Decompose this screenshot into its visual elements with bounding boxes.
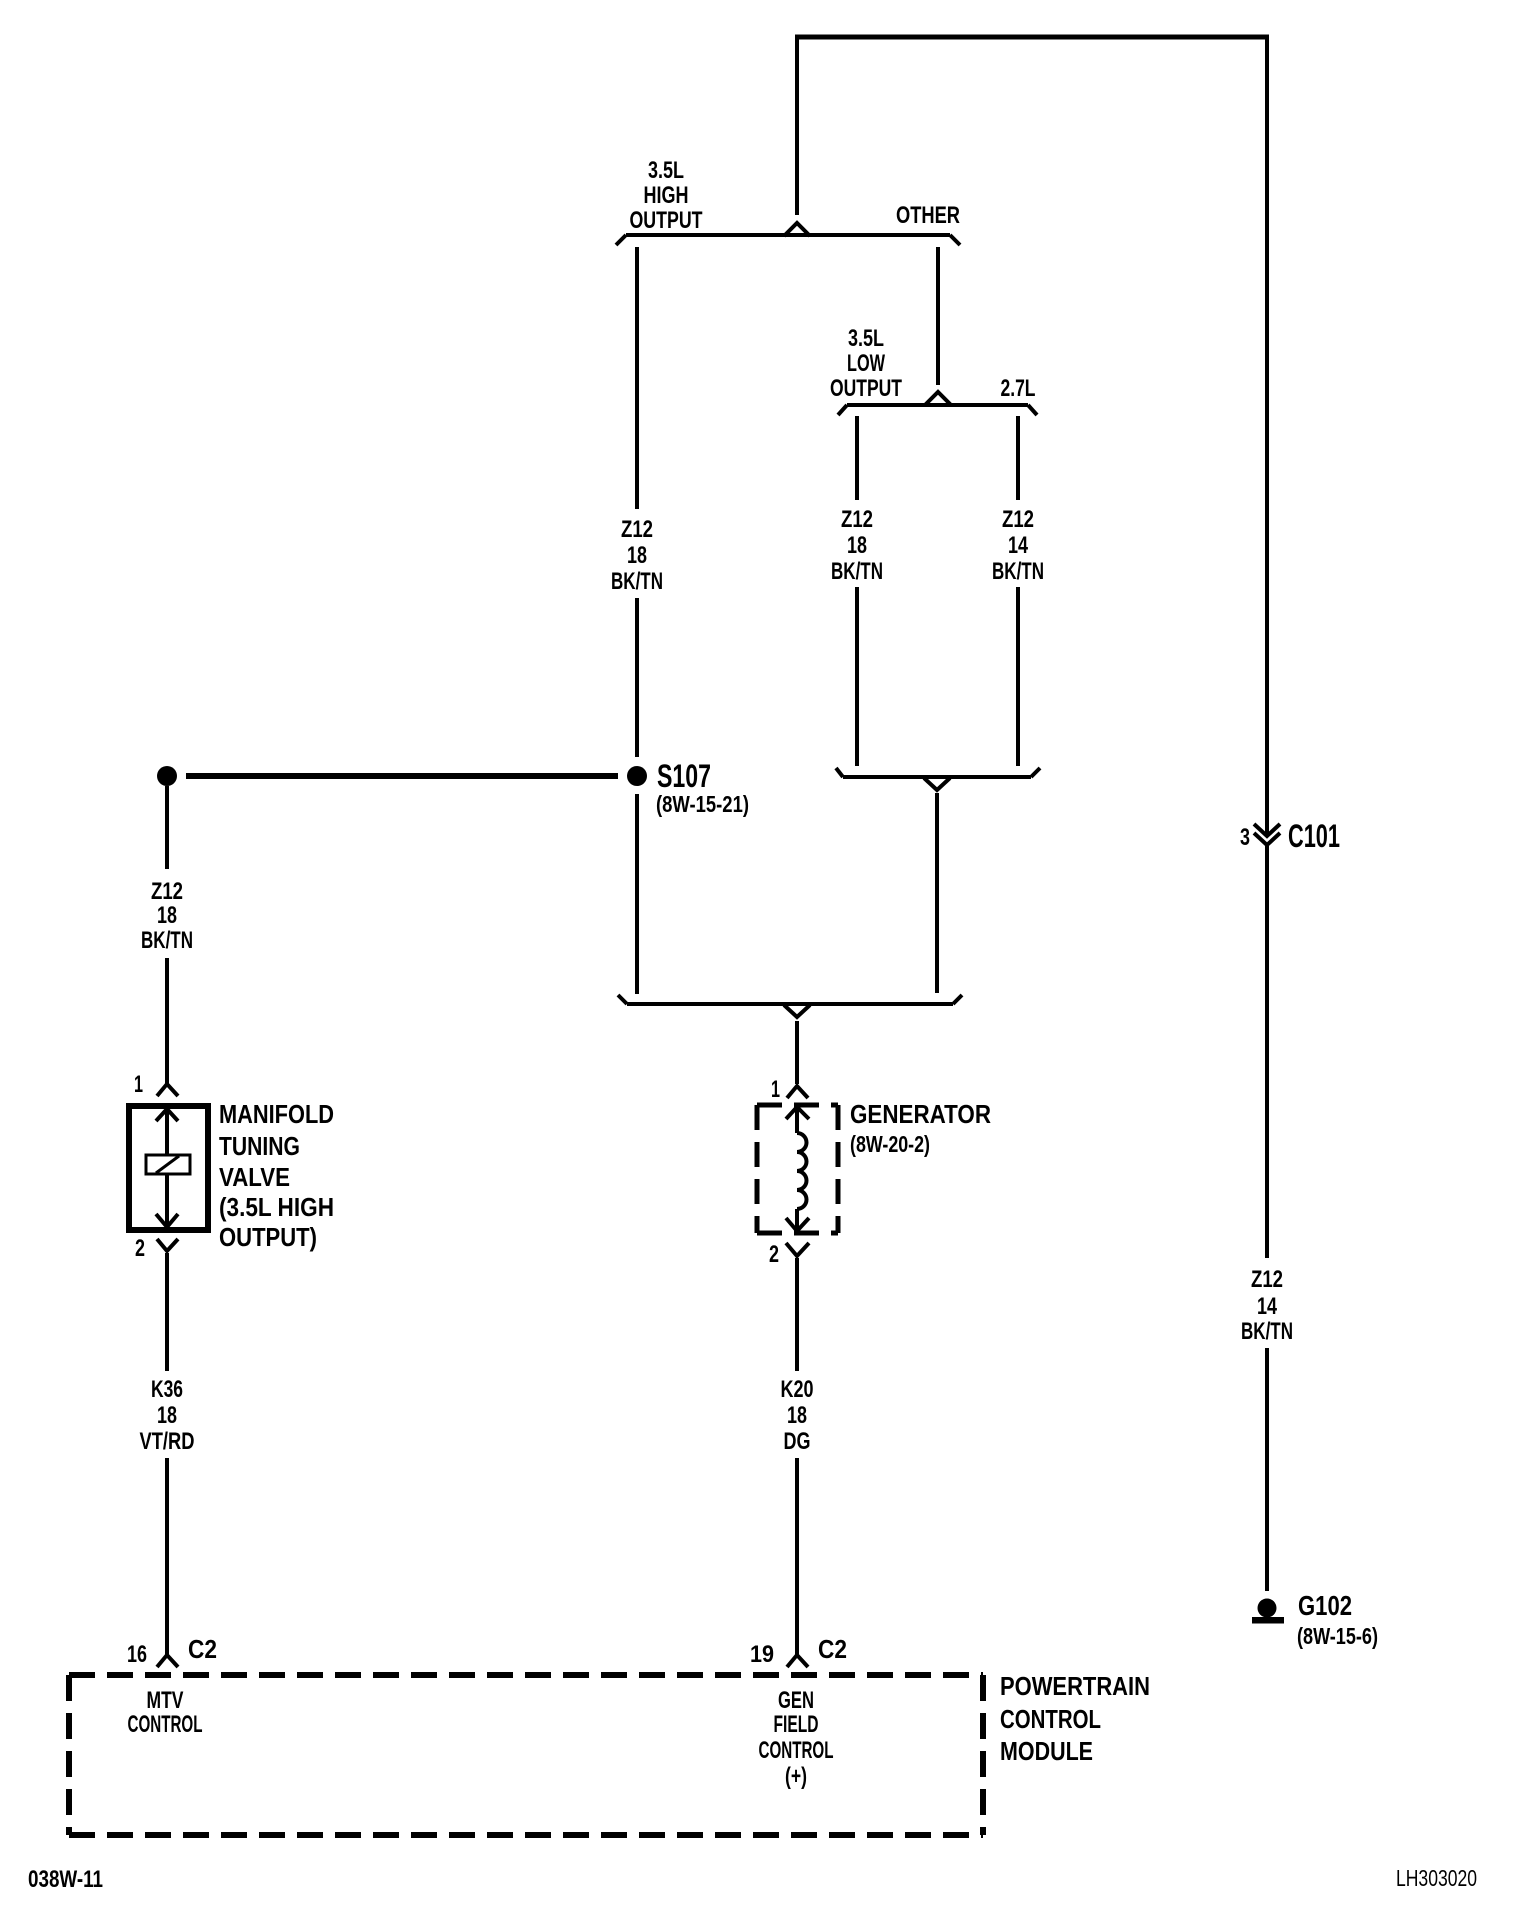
svg-text:GENERATOR: GENERATOR: [850, 1099, 991, 1129]
generator inner bottom arrow: [786, 1218, 809, 1231]
label wire Z12 14 BK/TN (2.7L branch): [992, 506, 1044, 585]
svg-text:14: 14: [1257, 1293, 1277, 1320]
pin 2 MTV connector chevron: [157, 1239, 178, 1251]
wire OTHER branch upper: [936, 247, 940, 385]
label wire Z12 18 BK/TN (MTV branch): [141, 878, 193, 954]
svg-text:16: 16: [127, 1641, 147, 1668]
MTV inner wire bottom: [165, 1174, 169, 1227]
wire MTV branch upper: [165, 786, 169, 869]
svg-text:2: 2: [769, 1241, 779, 1268]
svg-text:K20: K20: [781, 1376, 814, 1403]
svg-text:14: 14: [1008, 532, 1028, 559]
generator inner wire bottom: [795, 1209, 799, 1230]
svg-text:Z12: Z12: [1251, 1266, 1283, 1293]
svg-text:3.5L: 3.5L: [848, 325, 884, 352]
node merge low-output/2.7L branches: [836, 768, 1040, 790]
wire merged OTHER branch down: [935, 793, 939, 993]
svg-text:(8W-15-21): (8W-15-21): [656, 791, 749, 817]
wire generator to PCM lower: [795, 1458, 799, 1655]
label wire Z12 18 BK/TN (low output branch): [831, 506, 883, 585]
wire 2.7L branch lower: [1016, 587, 1020, 766]
svg-text:LOW: LOW: [847, 350, 885, 377]
MTV solenoid diagonal: [156, 1156, 179, 1173]
svg-text:CONTROL: CONTROL: [1000, 1704, 1101, 1734]
pin 2 generator connector chevron: [786, 1243, 809, 1256]
svg-text:G102: G102: [1298, 1590, 1352, 1621]
node C101 connector double chevron: [1254, 824, 1280, 845]
wire right Z12 upper: [1265, 35, 1269, 834]
svg-text:BK/TN: BK/TN: [611, 568, 663, 595]
svg-text:Z12: Z12: [621, 516, 653, 543]
label 3.5L LOW OUTPUT: [830, 325, 902, 402]
wire right Z12 lower: [1265, 1348, 1269, 1591]
label wire Z12 14 BK/TN (right): [1241, 1266, 1293, 1345]
MTV inner top arrow: [156, 1109, 178, 1121]
pin 1 generator connector chevron: [787, 1086, 808, 1098]
svg-text:1: 1: [771, 1076, 780, 1103]
svg-text:OUTPUT): OUTPUT): [219, 1222, 317, 1252]
wire S107 horizontal: [186, 773, 618, 779]
svg-text:18: 18: [157, 902, 177, 929]
svg-text:Z12: Z12: [1002, 506, 1034, 533]
label wire Z12 18 BK/TN (high output branch): [611, 516, 663, 595]
node S107 splice dot: [627, 766, 647, 786]
wire high output branch to splice: [635, 598, 639, 757]
wire MTV to PCM upper: [165, 1253, 169, 1371]
svg-text:(+): (+): [785, 1763, 807, 1790]
svg-text:MANIFOLD: MANIFOLD: [219, 1099, 334, 1129]
svg-text:GEN: GEN: [778, 1687, 814, 1714]
component MANIFOLD TUNING VALVE box: [129, 1106, 208, 1230]
generator inner top arrow: [786, 1107, 809, 1119]
ground G102 symbol: [1258, 1599, 1277, 1618]
svg-text:1: 1: [134, 1071, 143, 1098]
svg-text:DG: DG: [784, 1428, 811, 1455]
wire merged to generator pin1: [795, 1021, 799, 1084]
svg-text:Z12: Z12: [841, 506, 873, 533]
svg-text:CONTROL: CONTROL: [759, 1737, 834, 1764]
svg-text:MTV: MTV: [147, 1687, 184, 1714]
svg-text:VALVE: VALVE: [219, 1162, 290, 1192]
wire 2.7L branch upper: [1016, 416, 1020, 500]
pin 1 MTV connector chevron: [157, 1084, 178, 1096]
label wire K36 18 VT/RD: [140, 1376, 195, 1455]
svg-text:MODULE: MODULE: [1000, 1736, 1093, 1766]
svg-text:C2: C2: [188, 1634, 217, 1664]
generator field coil: [797, 1133, 807, 1209]
wire generator to PCM upper: [795, 1258, 799, 1371]
component GENERATOR dashed box: [757, 1105, 838, 1233]
wire MTV to PCM lower: [165, 1458, 169, 1655]
MTV inner wire top: [165, 1109, 169, 1155]
label 3.5L HIGH OUTPUT: [630, 157, 703, 234]
svg-text:(3.5L HIGH: (3.5L HIGH: [219, 1192, 334, 1222]
node split 3.5L-HIGH-OUTPUT/OTHER: [616, 223, 960, 245]
svg-text:K36: K36: [151, 1376, 183, 1403]
svg-text:19: 19: [750, 1641, 774, 1668]
svg-text:BK/TN: BK/TN: [141, 927, 193, 954]
node merge high-output/other to generator: [618, 995, 962, 1017]
wire low output branch lower: [855, 587, 859, 766]
wire top horizontal feed: [795, 35, 1269, 40]
svg-text:(8W-15-6): (8W-15-6): [1297, 1623, 1378, 1649]
component POWERTRAIN CONTROL MODULE dashed box: [69, 1675, 983, 1835]
svg-text:18: 18: [627, 542, 647, 569]
label POWERTRAIN CONTROL MODULE: [1000, 1671, 1150, 1766]
wire right Z12 middle: [1265, 846, 1269, 1258]
svg-text:BK/TN: BK/TN: [831, 558, 883, 585]
svg-text:POWERTRAIN: POWERTRAIN: [1000, 1671, 1150, 1701]
label wire K20 18 DG: [781, 1376, 814, 1455]
svg-text:OTHER: OTHER: [896, 202, 960, 229]
wire 3.5L high output branch upper: [635, 247, 639, 509]
svg-text:(8W-20-2): (8W-20-2): [850, 1131, 930, 1157]
label MANIFOLD TUNING VALVE (3.5L HIGH OUTPUT): [219, 1099, 334, 1252]
svg-text:2: 2: [135, 1235, 145, 1262]
MTV inner bottom arrow: [156, 1214, 178, 1227]
wire MTV branch lower: [165, 958, 169, 1084]
svg-text:18: 18: [847, 532, 867, 559]
svg-text:BK/TN: BK/TN: [992, 558, 1044, 585]
svg-text:TUNING: TUNING: [219, 1131, 300, 1161]
svg-text:3.5L: 3.5L: [648, 157, 684, 184]
svg-text:HIGH: HIGH: [644, 182, 689, 209]
svg-text:S107: S107: [657, 758, 711, 794]
svg-text:VT/RD: VT/RD: [140, 1428, 195, 1455]
MTV solenoid box: [146, 1155, 190, 1174]
svg-text:CONTROL: CONTROL: [128, 1711, 203, 1738]
svg-text:LH303020: LH303020: [1396, 1865, 1477, 1891]
svg-text:OUTPUT: OUTPUT: [830, 375, 902, 402]
wire low output branch upper: [855, 416, 859, 500]
wire high output branch below splice: [635, 794, 639, 994]
svg-text:FIELD: FIELD: [774, 1711, 819, 1738]
generator inner wire top: [795, 1107, 799, 1133]
node splice dot left: [157, 766, 177, 786]
label GEN FIELD CONTROL (+): [759, 1687, 834, 1790]
svg-text:18: 18: [157, 1402, 177, 1429]
node split 3.5L-LOW-OUTPUT/2.7L: [838, 392, 1037, 415]
svg-text:OUTPUT: OUTPUT: [630, 207, 703, 234]
wire vertical feed to split S1: [795, 35, 799, 215]
pin 19 PCM connector chevron: [787, 1655, 808, 1667]
svg-text:3: 3: [1240, 824, 1250, 851]
svg-text:C2: C2: [818, 1634, 847, 1664]
pin 16 PCM connector chevron: [157, 1655, 178, 1667]
svg-text:038W-11: 038W-11: [28, 1866, 103, 1893]
label MTV CONTROL: [128, 1687, 203, 1738]
svg-text:C101: C101: [1288, 818, 1340, 854]
svg-text:BK/TN: BK/TN: [1241, 1318, 1293, 1345]
svg-text:18: 18: [787, 1402, 807, 1429]
svg-text:Z12: Z12: [151, 878, 183, 905]
svg-text:2.7L: 2.7L: [1001, 375, 1036, 402]
